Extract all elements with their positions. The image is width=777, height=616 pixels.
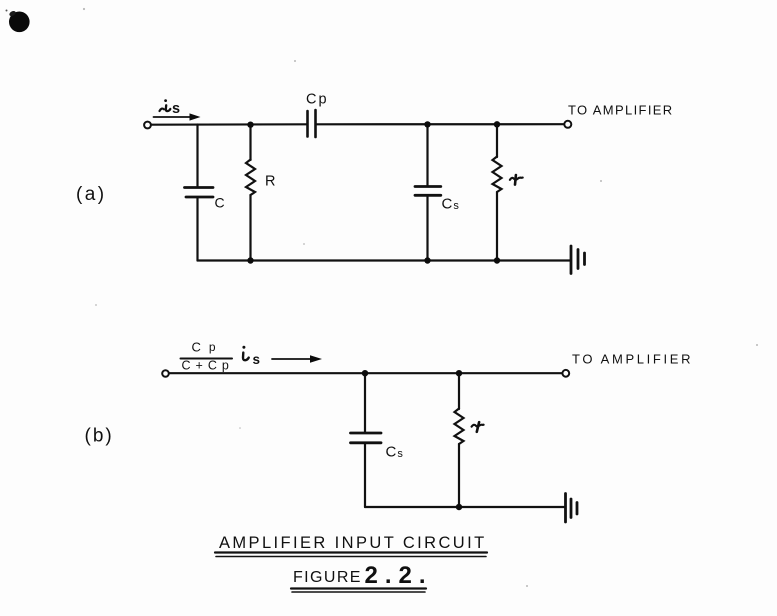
svg-text:(b): (b) xyxy=(85,426,114,447)
svg-text:(a): (a) xyxy=(76,184,106,205)
svg-text:2.2.: 2.2. xyxy=(365,562,433,589)
svg-text:Cp: Cp xyxy=(192,340,216,355)
svg-text:C+Cp: C+Cp xyxy=(182,359,234,373)
svg-text:R: R xyxy=(265,174,275,190)
svg-text:s: s xyxy=(172,101,180,117)
svg-text:TO AMPLIFIER: TO AMPLIFIER xyxy=(568,103,674,118)
svg-text:C: C xyxy=(215,195,225,211)
svg-text:FIGURE: FIGURE xyxy=(293,569,362,586)
svg-text:Cs: Cs xyxy=(442,196,460,213)
svg-text:s: s xyxy=(253,352,261,367)
svg-text:AMPLIFIER INPUT CIRCUIT: AMPLIFIER INPUT CIRCUIT xyxy=(219,534,487,552)
svg-text:TO AMPLIFIER: TO AMPLIFIER xyxy=(572,352,693,367)
svg-text:Cp: Cp xyxy=(306,92,329,108)
svg-text:Cs: Cs xyxy=(386,444,404,461)
